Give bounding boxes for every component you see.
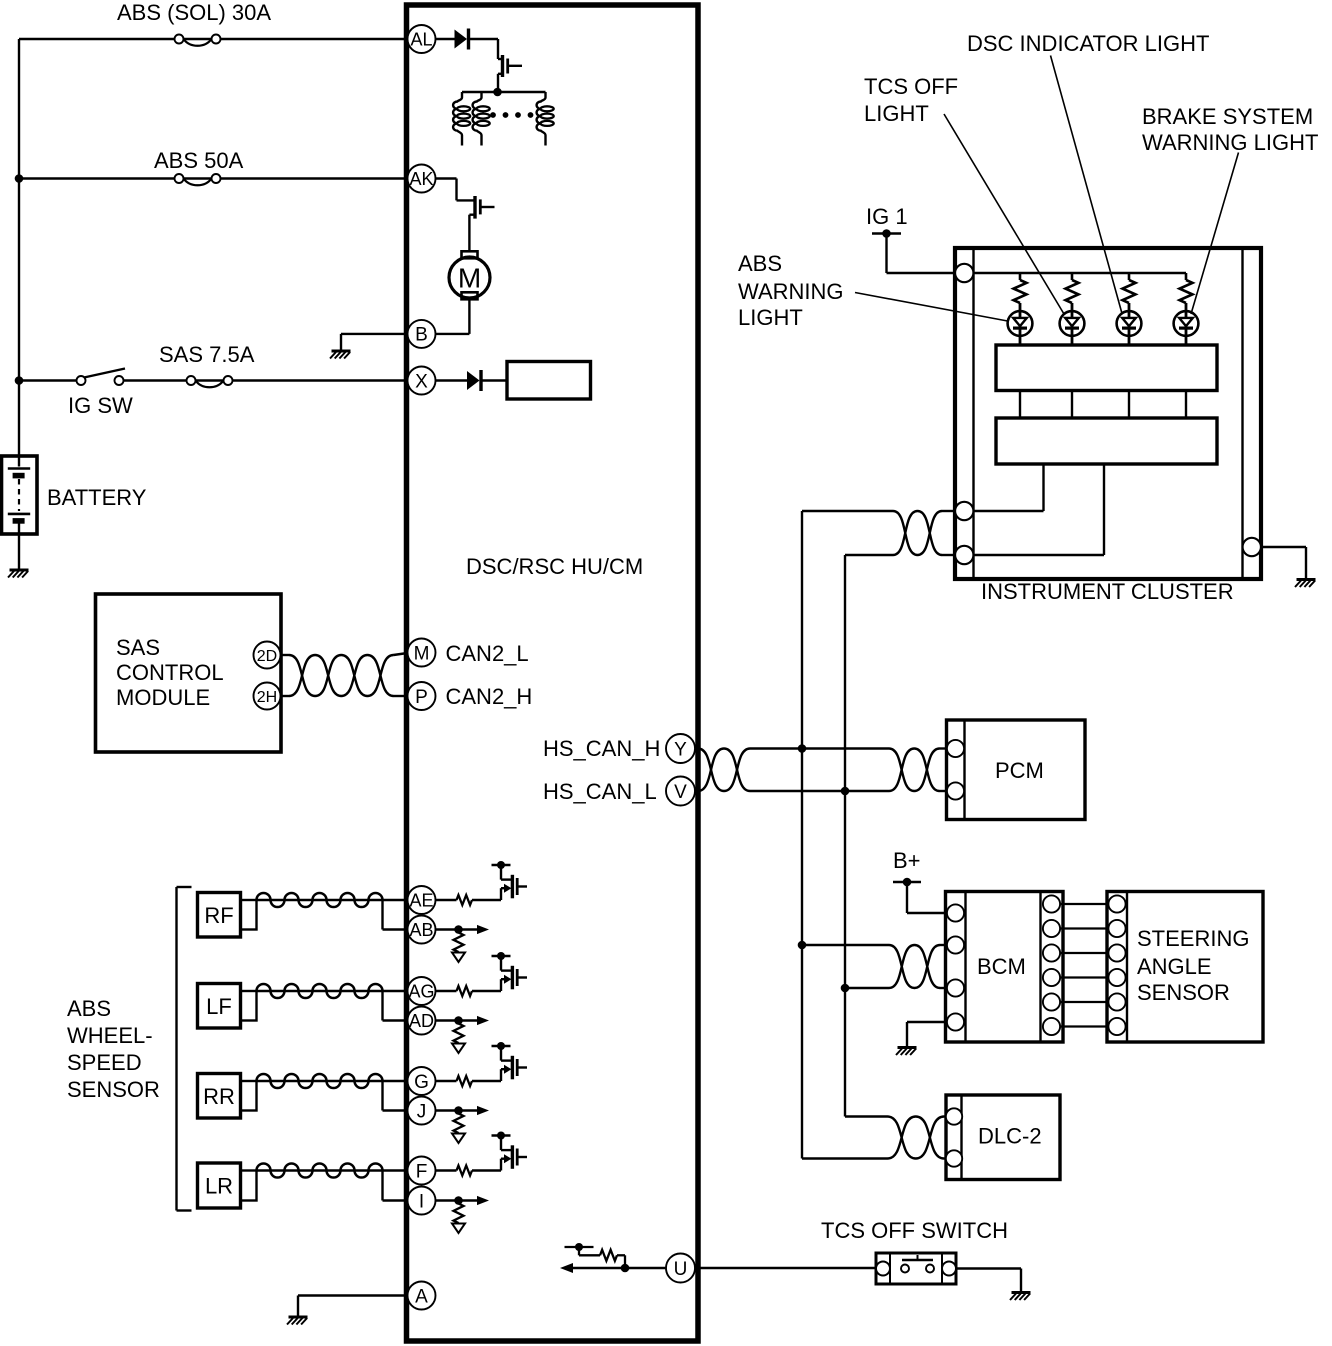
svg-text:SAS 7.5A: SAS 7.5A [159,342,255,367]
svg-text:WARNING: WARNING [738,279,844,304]
wire BCM-SAS link 5 [1060,1001,1108,1003]
pin steering angle sensor 1 [1108,895,1125,912]
pin cluster CAN H [955,502,973,520]
connector RF sensor connector [241,900,257,930]
resistor TCS OFF lamp resistor [1071,273,1074,280]
svg-text:V: V [674,782,687,803]
pin cluster IG1 [955,264,973,282]
pin B [408,320,436,348]
resistor BRAKE warning lamp resistor [1185,273,1188,280]
svg-text:LR: LR [205,1174,233,1199]
svg-text:AD: AD [409,1011,434,1031]
svg-text:PCM: PCM [995,758,1044,783]
ground cluster ground [1295,580,1316,588]
wire ABS (SOL) 30A feed to pin AL [19,38,407,40]
node junction rail-ABS50A [15,174,24,183]
wire BCM-SAS link 4 [1060,976,1108,978]
DLC-2 box [946,1095,1060,1180]
pin AK [408,165,436,193]
wire RF twisted pair (coiled) [257,899,383,902]
svg-text:J: J [417,1101,427,1122]
svg-text:SENSOR: SENSOR [67,1077,160,1102]
wire X to diode [436,379,468,381]
leader DSC indicator light [1051,56,1123,314]
pin P [408,682,436,710]
connector LF sensor connector [241,991,257,1021]
node junction AB [454,925,463,934]
ground TCS switch ground [1010,1293,1031,1301]
wire diode to solenoid FET [469,38,499,40]
svg-text:RF: RF [204,903,233,928]
svg-text:LIGHT: LIGHT [864,101,929,126]
resistor I bias resistor [454,1204,464,1224]
wire I reference branch [436,1199,481,1201]
svg-text:B+: B+ [893,848,921,873]
pin F [408,1157,436,1185]
LED ABS warning light [1019,303,1022,345]
sensor RR wheel-speed sensor box [198,1074,241,1119]
svg-text:DSC/RSC HU/CM: DSC/RSC HU/CM [466,554,643,579]
resistor AB bias resistor [454,933,464,953]
pin cluster CAN L [955,546,973,564]
resistor F input resistor [436,1169,457,1171]
fuse SAS 7.5A [187,376,196,385]
wire AK to motor FET [436,177,457,179]
wire J reference branch [436,1109,481,1111]
bracket ABS wheel-speed sensor group [175,887,177,1211]
resistor U pull-up network [624,1255,626,1268]
wire BCM-SAS link 2 [1060,927,1108,929]
svg-text:ABS 50A: ABS 50A [154,148,244,173]
wire AB reference branch [436,928,481,930]
ground module ground A [287,1317,308,1325]
pin BCM ground [947,1013,964,1030]
SAS CONTROL MODULE box [96,594,282,752]
inductor solenoid coil 1 [453,92,462,146]
wire CAN drop from cluster pin2 (x=845) [844,555,846,1117]
fuse ABS (SOL) 30A [175,35,184,44]
svg-text:SPEED: SPEED [67,1050,142,1075]
svg-text:I: I [419,1191,424,1212]
switch IG SW [77,376,86,385]
svg-text:HS_CAN_H: HS_CAN_H [543,736,660,761]
wire block2 to cluster pin2 [1103,464,1105,555]
pin J [408,1097,436,1125]
wire TCS switch to ground [956,1267,1021,1269]
pin Y [666,734,695,763]
sensor LF wheel-speed sensor box [198,984,241,1029]
cluster internal block 2 [996,418,1217,464]
battery BATTERY [2,456,38,534]
wire pin A to ground [298,1294,407,1296]
wire BCM-SAS link 1 [1060,903,1108,905]
svg-text:BCM: BCM [977,954,1026,979]
pin AG [408,977,436,1005]
svg-text:2D: 2D [257,648,277,665]
pin 2H [254,683,281,710]
wire BCM-SAS link 6 [1060,1025,1108,1027]
svg-text:AE: AE [409,890,433,910]
pin BCM CAN H [947,936,964,953]
diode AL blocking diode [455,30,468,49]
svg-text:STEERING: STEERING [1137,926,1249,951]
leader ABS warning light [855,293,1008,322]
wire solenoid bus [462,91,546,93]
transistor pump motor FET [457,199,476,201]
svg-text:WHEEL-: WHEEL- [67,1023,153,1048]
BCM box [946,892,1064,1043]
pin G [408,1067,436,1095]
wire ABS 50A feed to pin AK [19,177,407,179]
resistor AD bias resistor [454,1024,464,1044]
pin U [666,1254,695,1283]
wire block2 to cluster pin1 [1042,464,1044,511]
wire pin B to ground [341,333,407,335]
resistor AE input resistor [436,899,457,901]
wires block1 to block2 [1019,391,1021,419]
inductor solenoid coil 3 [537,92,546,146]
node junction HS_CAN_H / cluster drop [798,744,807,753]
pin BCM-SAS link left 3 [1043,944,1060,961]
INSTRUMENT CLUSTER box [955,248,1261,579]
inductor solenoid coil 2 [473,92,482,146]
svg-text:LIGHT: LIGHT [738,305,803,330]
resistor ABS warning lamp resistor [1019,273,1022,280]
transistor F input FET [492,1134,511,1136]
svg-text:IG SW: IG SW [68,393,133,418]
node junction J [454,1106,463,1115]
svg-text:P: P [415,687,428,708]
wire IG1 to cluster [885,234,887,274]
pin PCM HS_CAN_H [947,740,964,757]
switch TCS OFF SWITCH [876,1253,956,1284]
transistor AG input FET [492,955,511,957]
wire LR twisted pair (coiled) [257,1169,383,1172]
wire HS_CAN twisted pair at module exit [698,749,750,792]
svg-text:DLC-2: DLC-2 [978,1124,1042,1149]
wire cluster ground [1261,546,1306,548]
node IG 1 feed [882,229,891,238]
connector RR sensor connector [241,1081,257,1111]
motor M pump motor [462,251,478,258]
wire B+ to BCM [906,882,908,913]
wire FET to motor [468,215,470,252]
resistor G input resistor [436,1080,457,1082]
svg-text:F: F [416,1161,428,1182]
node junction U pull-up [621,1264,630,1273]
pin M [408,639,436,667]
svg-text:U: U [674,1259,688,1280]
wire cluster lamp bus [973,272,1186,274]
svg-text:ABS: ABS [67,996,111,1021]
wire U internal to MCU arrow [573,1267,666,1269]
svg-text:B: B [415,325,428,346]
resistor AG input resistor [436,990,457,992]
svg-text:INSTRUMENT CLUSTER: INSTRUMENT CLUSTER [981,579,1234,604]
sensor RF wheel-speed sensor box [198,893,241,938]
node solenoid bus junction [493,88,502,97]
svg-text:SENSOR: SENSOR [1137,980,1230,1005]
svg-text:RR: RR [203,1084,235,1109]
LED TCS OFF light [1071,303,1074,345]
ground BCM ground [896,1048,917,1056]
transistor solenoid driver FET [498,58,503,60]
pin PCM HS_CAN_L [947,782,964,799]
resistor J bias resistor [454,1114,464,1134]
ground battery ground [8,570,29,578]
pin I [408,1187,436,1215]
wire SAS 7.5A feed to pin X [19,379,77,381]
wire CAN2 twisted pair SAS to M/P [281,654,290,656]
node junction BCM CAN H [798,941,807,950]
pin cluster ground [1243,538,1261,556]
arrow AD reference (open) [452,1044,465,1054]
connector LR sensor connector [241,1171,257,1201]
svg-text:BATTERY: BATTERY [47,485,147,510]
svg-text:X: X [415,371,428,392]
svg-text:TCS OFF: TCS OFF [864,74,958,99]
svg-text:ANGLE: ANGLE [1137,954,1212,979]
pin V [666,777,695,806]
arrow AB reference (open) [452,953,465,963]
wire U to TCS OFF switch [695,1267,876,1269]
PCM box [947,720,1086,820]
wire BCM ground [907,1021,947,1023]
node junction BCM CAN L [841,984,850,993]
LED BRAKE warning light [1185,303,1188,345]
svg-text:ABS (SOL) 30A: ABS (SOL) 30A [117,0,271,25]
svg-text:IG 1: IG 1 [866,204,908,229]
svg-text:CAN2_H: CAN2_H [446,684,533,709]
pin BCM-SAS link left 5 [1043,993,1060,1010]
svg-text:2H: 2H [257,689,277,706]
pin steering angle sensor 4 [1108,969,1125,986]
wire battery positive rail [18,39,20,456]
pin BCM-SAS link left 1 [1043,895,1060,912]
svg-text:TCS OFF SWITCH: TCS OFF SWITCH [821,1218,1008,1243]
svg-text:LF: LF [206,994,232,1019]
svg-text:AG: AG [408,981,434,1001]
pin AD [408,1007,436,1035]
wire DLC twisted pair [845,1115,888,1117]
pin AB [408,916,436,944]
resistor DSC indicator lamp resistor [1128,273,1131,280]
STEERING ANGLE SENSOR box [1107,892,1263,1043]
pin AE [408,886,436,914]
pin DLC-2 CAN H [946,1108,962,1124]
wire AL to diode [436,38,455,40]
svg-text:M: M [458,263,481,294]
wire motor to pin B [468,299,470,334]
pin AL [408,25,436,53]
wire cluster twisted pair to drops [802,510,893,512]
sensor LR wheel-speed sensor box [198,1163,241,1208]
arrow I reference (open) [452,1224,465,1234]
transistor G input FET [492,1045,511,1047]
pin BCM B+ [947,904,964,921]
svg-text:A: A [415,1286,428,1307]
wire BCM twisted pair [802,944,889,946]
svg-text:AK: AK [409,169,433,189]
pin steering angle sensor 5 [1108,993,1125,1010]
pin BCM-SAS link left 6 [1043,1018,1060,1035]
wire diode to internal block [481,379,507,381]
svg-text:BRAKE SYSTEM: BRAKE SYSTEM [1142,104,1313,129]
wire RR twisted pair (coiled) [257,1080,383,1083]
pin 2D [254,642,281,669]
pin X [408,367,436,395]
node U pull-up supply [575,1243,583,1251]
fuse ABS 50A [175,174,184,183]
wire AD reference branch [436,1019,481,1021]
svg-text:DSC INDICATOR LIGHT: DSC INDICATOR LIGHT [967,31,1209,56]
node junction I [454,1196,463,1205]
svg-text:HS_CAN_L: HS_CAN_L [543,779,657,804]
cluster internal block 1 [996,345,1217,391]
pin DLC-2 CAN L [946,1150,962,1166]
node B+ feed [903,878,912,887]
svg-text:MODULE: MODULE [116,685,210,710]
diode X input diode [467,371,480,390]
node junction AD [454,1016,463,1025]
wire BCM-SAS link 3 [1060,952,1108,954]
node junction HS_CAN_L / cluster drop [841,787,850,796]
pin BCM CAN L [947,979,964,996]
wire HS_CAN_L to PCM [750,790,889,792]
svg-text:CONTROL: CONTROL [116,660,224,685]
svg-text:CAN2_L: CAN2_L [446,641,529,666]
wire HS_CAN_H to PCM [750,747,889,749]
DSC/RSC HU/CM main control module box [407,5,699,1341]
wire twisted pair into PCM [889,749,940,792]
internal block (unlabeled) [507,362,591,400]
leader TCS OFF light [944,114,1064,314]
pin BCM-SAS link left 4 [1043,969,1060,986]
wire CAN drop from cluster pin1 (x=802) [801,511,803,1159]
LED DSC indicator light [1128,303,1131,345]
ellipsis dots between coils [490,112,496,118]
ground B ground [330,351,351,359]
svg-text:ABS: ABS [738,251,782,276]
pin BCM-SAS link left 2 [1043,920,1060,937]
pin steering angle sensor 3 [1108,944,1125,961]
transistor AE input FET [492,864,511,866]
node junction rail-SAS [15,376,24,385]
svg-text:AL: AL [410,29,432,49]
svg-text:G: G [414,1072,429,1093]
svg-text:Y: Y [674,739,687,760]
svg-text:M: M [414,643,430,664]
svg-text:WARNING LIGHT: WARNING LIGHT [1142,130,1318,155]
leader BRAKE system warning light [1191,153,1239,315]
arrow J reference (open) [452,1134,465,1144]
svg-text:AB: AB [409,920,433,940]
pin steering angle sensor 2 [1108,920,1125,937]
wire LF twisted pair (coiled) [257,990,383,993]
svg-text:SAS: SAS [116,635,160,660]
pin steering angle sensor 6 [1108,1018,1125,1035]
pin A [408,1282,436,1310]
